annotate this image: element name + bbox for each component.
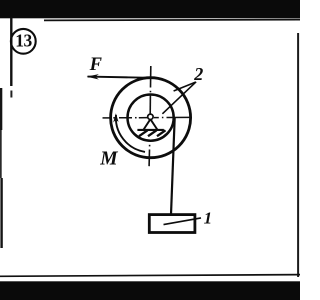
arrowhead F — [87, 74, 99, 79]
top black band — [0, 0, 300, 18]
moment arrowhead — [113, 113, 118, 122]
rope vertical to block — [171, 118, 175, 215]
bottom border line — [0, 275, 300, 277]
vertical centerline mid — [149, 95, 151, 114]
support triangle — [144, 119, 158, 129]
pulley inner circle 2 — [128, 95, 174, 141]
moment arc M — [116, 115, 145, 152]
support hatching — [139, 130, 166, 136]
vertical centerline dot lower — [149, 145, 151, 147]
block 1 — [149, 215, 195, 233]
leader line 1 — [164, 218, 202, 225]
left edge artifact lower — [0, 178, 2, 248]
pulley outer circle 2 — [111, 78, 191, 158]
support ground line — [137, 129, 164, 131]
top border line — [44, 19, 300, 22]
left border line — [10, 18, 12, 87]
svg-text:2: 2 — [193, 64, 203, 84]
vertical centerline — [150, 66, 152, 88]
vertical centerline bottom — [148, 150, 150, 167]
rope F horizontal — [88, 77, 153, 78]
svg-text:13: 13 — [15, 30, 32, 50]
left border dash — [10, 91, 12, 98]
bottom black band — [0, 281, 300, 300]
left edge artifact mid — [0, 130, 2, 178]
pin circle — [148, 114, 153, 119]
svg-text:F: F — [89, 55, 103, 75]
right border line — [297, 33, 299, 277]
svg-text:1: 1 — [204, 209, 213, 228]
leader line 2 upper — [174, 82, 196, 91]
leader line 2 lower — [162, 82, 196, 114]
vertical centerline dot — [149, 91, 151, 93]
left edge artifact upper — [0, 88, 2, 130]
horizontal centerline — [103, 116, 191, 119]
badge circle 13 — [11, 29, 36, 54]
svg-text:M: M — [99, 149, 118, 170]
